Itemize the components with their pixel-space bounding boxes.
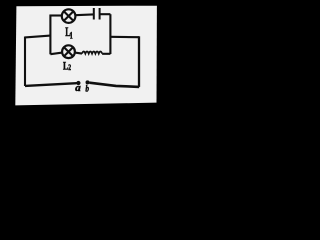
svg-text:b: b <box>85 83 89 94</box>
svg-text:2: 2 <box>68 63 71 72</box>
svg-text:1: 1 <box>70 30 73 40</box>
svg-text:a: a <box>75 83 81 94</box>
